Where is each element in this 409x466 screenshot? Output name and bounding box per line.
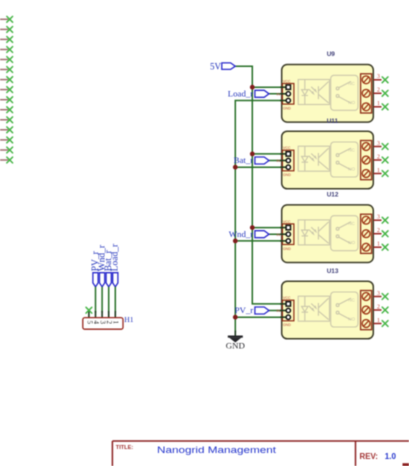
relay module U11 <box>277 131 389 189</box>
pin stub (cut-off part, pin 10) <box>0 109 8 111</box>
junction GND at module 3 <box>233 315 238 320</box>
unconnected X (left pin 12) <box>7 127 13 133</box>
svg-text:5V: 5V <box>210 61 222 71</box>
wire GND branch to module 1 <box>235 166 286 168</box>
pin stub (cut-off part, pin 9) <box>0 99 8 101</box>
junction GND at module 2 <box>233 239 238 244</box>
unconnected X (left pin 5) <box>7 57 13 63</box>
junction 5V at module 0 <box>250 85 255 90</box>
connector H1 body <box>83 318 123 330</box>
svg-text:Load_r: Load_r <box>228 88 253 98</box>
wire Bat_r to H1 <box>108 287 110 313</box>
ground symbol GND <box>228 337 243 342</box>
svg-text:TITLE:: TITLE: <box>116 445 134 451</box>
unconnected X (left pin 2) <box>7 27 13 33</box>
pin stub (cut-off part, pin 12) <box>0 129 8 131</box>
unconnected X (left pin 15) <box>7 157 13 163</box>
wire input to module 3 <box>269 310 287 312</box>
wire 5V net (flag to rail, rail down, into U13 VCC) <box>235 66 286 304</box>
svg-text:GND: GND <box>226 340 245 350</box>
net flag Load_r <box>255 90 269 97</box>
pin stub (cut-off part, pin 2) <box>0 28 8 30</box>
wire Load_r to H1 <box>114 287 116 313</box>
svg-text:Wnd_r: Wnd_r <box>229 229 253 239</box>
unconnected X (left pin 13) <box>7 137 13 143</box>
svg-text:Load_r: Load_r <box>111 243 121 271</box>
net flag Wnd_r <box>255 231 269 238</box>
unconnected X (left pin 14) <box>7 147 13 153</box>
wire GND branch to module 3 <box>235 316 286 318</box>
H1 pin stub x=102.1 <box>101 311 103 318</box>
net flag Bat_r (vertical) <box>106 273 111 287</box>
pin stub (cut-off part, pin 7) <box>0 79 8 81</box>
svg-text:1: 1 <box>112 321 120 325</box>
svg-text:PV_r: PV_r <box>235 305 254 315</box>
svg-text:Nanogrid Management: Nanogrid Management <box>157 445 277 455</box>
relay module U13 <box>277 281 389 339</box>
pin stub (cut-off part, pin 8) <box>0 89 8 91</box>
unconnected X on H1 pin 5 <box>86 307 92 313</box>
svg-text:Bat_r: Bat_r <box>234 155 254 165</box>
pin stub (cut-off part, pin 14) <box>0 149 8 151</box>
unconnected X (left pin 4) <box>7 47 13 53</box>
pin stub (cut-off part, pin 1) <box>0 18 8 20</box>
svg-text:1.0: 1.0 <box>385 452 397 461</box>
svg-text:U13: U13 <box>327 268 339 275</box>
wire input to module 2 <box>269 233 287 235</box>
unconnected X (left pin 10) <box>7 107 13 113</box>
wire GND net (U9 GND to rail, rail down to ground) <box>235 101 286 333</box>
junction 5V at module 2 <box>250 225 255 230</box>
svg-text:U9: U9 <box>327 51 336 58</box>
H1 pin stub x=95.5 <box>95 311 97 318</box>
pin stub (cut-off part, pin 13) <box>0 139 8 141</box>
wire input to module 0 <box>269 93 287 95</box>
pin stub (cut-off part, pin 11) <box>0 119 8 121</box>
svg-text:U11: U11 <box>327 118 339 125</box>
pin stub (cut-off part, pin 6) <box>0 69 8 71</box>
H1 pin stub x=88.9 <box>88 311 90 318</box>
svg-text:REV:: REV: <box>360 452 378 461</box>
wire Wnd_r to H1 <box>101 287 103 313</box>
wire 5V branch to module 0 VCC <box>252 86 286 88</box>
relay module U12 <box>277 205 389 263</box>
unconnected X (left pin 1) <box>7 16 13 22</box>
wire 5V branch to module 2 VCC <box>252 227 286 229</box>
wire GND branch to module 2 <box>235 240 286 242</box>
H1 pin stub x=115.3 <box>114 311 116 318</box>
svg-text:U12: U12 <box>327 192 339 199</box>
unconnected X (left pin 9) <box>7 97 13 103</box>
net flag PV_r (vertical) <box>93 273 98 287</box>
unconnected X (left pin 11) <box>7 117 13 123</box>
net flag Bat_r <box>255 157 269 164</box>
unconnected X (left pin 7) <box>7 77 13 83</box>
pin stub (cut-off part, pin 4) <box>0 49 8 51</box>
title block frame <box>112 441 409 466</box>
pin stub (cut-off part, pin 15) <box>0 159 8 161</box>
net flag Wnd_r (vertical) <box>100 273 105 287</box>
unconnected X (left pin 8) <box>7 87 13 93</box>
supply flag 5V <box>222 63 236 70</box>
relay module U9 <box>277 65 389 123</box>
unconnected X (left pin 6) <box>7 67 13 73</box>
pin stub (cut-off part, pin 5) <box>0 59 8 61</box>
title block corner mark <box>403 463 409 466</box>
wire input to module 1 <box>269 160 287 162</box>
ground pin stub <box>234 331 236 337</box>
net flag PV_r <box>255 307 269 314</box>
H1 pin stub x=108.7 <box>108 311 110 318</box>
net flag Load_r (vertical) <box>113 273 118 287</box>
wire 5V branch to module 1 VCC <box>252 153 286 155</box>
svg-text:H1: H1 <box>124 315 133 324</box>
unconnected X (left pin 3) <box>7 37 13 43</box>
junction GND at module 1 <box>233 165 238 170</box>
pin stub (cut-off part, pin 3) <box>0 38 8 40</box>
wire PV_r to H1 <box>95 287 97 313</box>
junction 5V at module 1 <box>250 152 255 157</box>
